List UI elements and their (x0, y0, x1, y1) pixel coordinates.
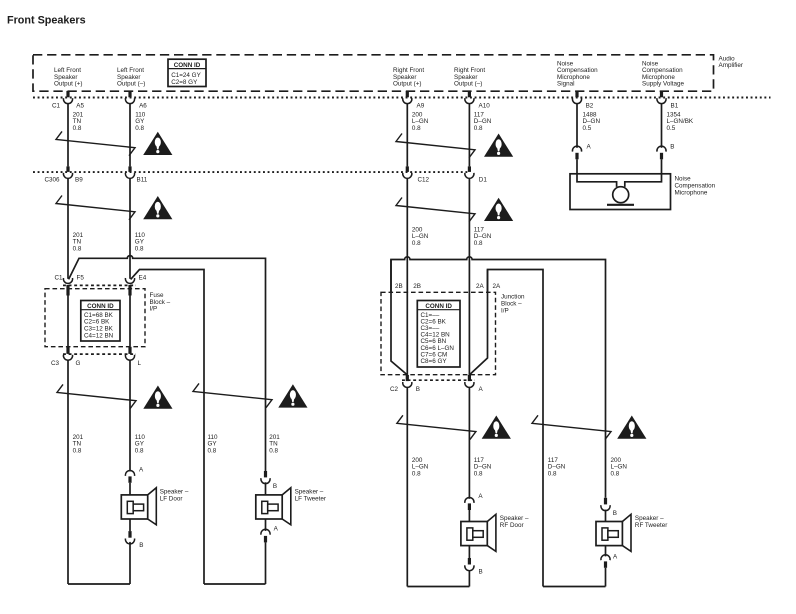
amp pin A9 terminal (406, 91, 409, 97)
warning triangle 1 (143, 132, 172, 155)
wire through LF door speaker (129, 495, 131, 519)
connector C306 pin B11 (128, 166, 131, 172)
svg-text:Front Speakers: Front Speakers (7, 14, 86, 26)
warning triangle 8 (617, 416, 646, 439)
warning triangle 7 (482, 416, 511, 439)
wire right col1 amp to C306 (406, 103, 408, 166)
wire bottom loop LF door (68, 583, 130, 585)
connector C2 dotted line (402, 379, 475, 381)
svg-text:Junction: Junction (501, 293, 525, 300)
wire bottom loop RF tweeter (543, 586, 606, 588)
svg-text:C4=12 BN: C4=12 BN (84, 332, 114, 339)
warning triangle 3 (143, 386, 172, 409)
wire LF tweeter B to speaker (265, 482, 267, 495)
connector RF door pin A (465, 497, 474, 502)
svg-text:C1: C1 (55, 275, 64, 282)
wire RF tweeter A to bottom (605, 568, 607, 587)
svg-text:RF Door: RF Door (500, 522, 524, 529)
svg-text:B1: B1 (671, 103, 679, 110)
connector LF tweeter pin A (261, 529, 270, 534)
wire col2 inside fuse block (129, 296, 131, 347)
svg-text:0.5: 0.5 (667, 125, 676, 132)
connector LF door pin A (125, 470, 134, 475)
svg-text:A6: A6 (139, 103, 147, 110)
connector LF door pin B (128, 531, 131, 538)
svg-text:0.8: 0.8 (611, 470, 620, 477)
svg-text:0.8: 0.8 (135, 125, 144, 132)
svg-text:2A: 2A (493, 283, 502, 290)
connector C306 pin C12 (406, 166, 409, 172)
wire RF tweeter B to speaker (605, 510, 607, 522)
connector LF tweeter pin B (264, 471, 267, 477)
svg-text:0.8: 0.8 (73, 245, 82, 252)
wire mic supply B1 down (661, 103, 663, 148)
svg-text:Speaker –: Speaker – (500, 515, 529, 522)
fuse block pin G (66, 347, 69, 354)
amp pin A5 terminal (66, 91, 69, 97)
speaker RF door icon (487, 514, 496, 551)
note marker crossing right col3-col4 (532, 415, 611, 439)
note marker crossing right col1-col2 (lower) (397, 415, 476, 439)
wire left col2 amp to C306 (129, 103, 131, 166)
wire right col2 C2 to speaker A (468, 387, 470, 498)
note marker crossing left col1-col2 (second) (56, 196, 135, 220)
fuse block pin F5 (63, 278, 72, 283)
wire branch 117 D-GN junction 2A to RF tweeter (488, 270, 544, 587)
svg-text:Output (–): Output (–) (117, 81, 145, 88)
junction block internal bus right (469, 270, 487, 375)
svg-text:0.8: 0.8 (474, 470, 483, 477)
wire mic lead right (625, 159, 662, 187)
svg-text:0.8: 0.8 (269, 447, 278, 454)
svg-text:B: B (670, 144, 674, 151)
audio amplifier U1 box (33, 55, 714, 91)
svg-text:C8=6 GY: C8=6 GY (421, 358, 448, 365)
wire right col1 C306 to junction block (406, 178, 408, 375)
svg-text:B: B (416, 386, 420, 393)
note marker crossing left col1-col2 (upper) (56, 131, 135, 155)
noise compensation microphone box (570, 174, 671, 210)
amp pin A10 terminal (468, 91, 471, 97)
svg-text:2A: 2A (476, 283, 485, 290)
svg-text:Output (–): Output (–) (454, 81, 482, 88)
note marker crossing right col1-col2 (second) (396, 198, 475, 222)
svg-text:C2: C2 (390, 386, 399, 393)
wire RF door speaker to pin B (468, 546, 470, 558)
speaker RF tweeter icon (622, 514, 631, 551)
amp pin B1 terminal (660, 91, 663, 97)
svg-text:C1: C1 (52, 103, 61, 110)
note marker crossing right col1-col2 (upper) (396, 134, 475, 158)
junction block pin A (468, 375, 471, 381)
fuse block I/P dashed outline (45, 289, 145, 347)
svg-text:F5: F5 (77, 275, 85, 282)
conn id table junction block (417, 301, 460, 368)
warning triangle 4 (278, 384, 307, 407)
svg-text:0.8: 0.8 (474, 125, 483, 132)
svg-text:Output (+): Output (+) (54, 81, 83, 88)
svg-text:CONN ID: CONN ID (425, 303, 452, 310)
svg-text:0.8: 0.8 (412, 125, 421, 132)
svg-text:B2: B2 (586, 103, 594, 110)
wire LF door A to speaker (129, 483, 131, 495)
wire LF door speaker to pin B (129, 519, 131, 531)
svg-text:0.8: 0.8 (73, 447, 82, 454)
wire RF door A to speaker (468, 510, 470, 522)
connector RF door pin B (468, 558, 471, 565)
svg-text:Output (+): Output (+) (393, 81, 422, 88)
note marker crossing left col3-col4 (193, 383, 272, 407)
svg-text:Supply Voltage: Supply Voltage (642, 81, 685, 88)
wire branch 110 GY from E4 to LF tweeter (131, 270, 204, 585)
junction block internal bus left (391, 260, 407, 375)
svg-text:0.8: 0.8 (135, 245, 144, 252)
svg-text:2B: 2B (395, 283, 403, 290)
svg-text:E4: E4 (139, 275, 147, 282)
svg-text:B9: B9 (75, 177, 83, 184)
wire right col1 C2 to bottom (406, 387, 408, 586)
wire left col1 C3 to bottom (67, 360, 69, 584)
connector C306 dotted line (33, 171, 470, 173)
svg-text:0.5: 0.5 (583, 125, 592, 132)
wire RF tweeter speaker to pin A (605, 546, 607, 557)
svg-text:C3: C3 (51, 360, 60, 367)
wire right col2 C306 to junction block (468, 178, 470, 375)
wire mic signal B2 down (576, 103, 578, 148)
speaker LF tweeter icon (282, 488, 291, 525)
wire RF door B to bottom (468, 571, 470, 587)
wire branch 200 L-GN junction 2B to RF tweeter (391, 257, 606, 498)
svg-text:B: B (479, 569, 483, 576)
wire left col1 C306 to F5 (67, 178, 69, 278)
conn id table amp C1/C2 (168, 59, 206, 86)
svg-text:D1: D1 (479, 177, 488, 184)
svg-text:Speaker –: Speaker – (635, 515, 664, 522)
connector C1 fuse dotted line (63, 284, 136, 286)
svg-text:B: B (613, 510, 617, 517)
connector RF tweeter pin B (604, 498, 607, 505)
svg-text:0.8: 0.8 (548, 470, 557, 477)
svg-text:B: B (139, 542, 143, 549)
svg-text:A10: A10 (479, 103, 491, 110)
wire bottom loop LF tweeter (204, 583, 266, 585)
svg-text:Block –: Block – (501, 300, 522, 307)
connector C1 amp dotted line (33, 97, 771, 99)
svg-text:G: G (76, 360, 81, 367)
warning triangle 5 (484, 134, 513, 157)
svg-text:B: B (273, 483, 277, 490)
svg-text:L: L (138, 360, 142, 367)
svg-text:I/P: I/P (150, 306, 158, 313)
warning triangle 2 (143, 196, 172, 219)
svg-text:Amplifier: Amplifier (719, 62, 744, 69)
svg-text:CONN ID: CONN ID (87, 303, 114, 310)
wire col1 inside fuse block (67, 296, 69, 347)
junction block I/P dashed outline (381, 292, 496, 374)
svg-text:B11: B11 (137, 177, 148, 184)
svg-text:C2=8 GY: C2=8 GY (171, 79, 198, 86)
wire through LF tweeter speaker (265, 495, 267, 519)
svg-text:0.8: 0.8 (135, 447, 144, 454)
wire left col2 C306 to E4 (129, 178, 131, 278)
svg-text:0.8: 0.8 (474, 240, 483, 247)
svg-text:I/P: I/P (501, 307, 509, 314)
warning triangle 6 (484, 198, 513, 221)
svg-text:Noise: Noise (675, 176, 692, 183)
svg-text:C12: C12 (418, 177, 430, 184)
microphone element symbol (613, 187, 629, 203)
connector mic pin A (572, 146, 581, 151)
connector C3 dotted line (63, 353, 136, 355)
conn id table fuse block (81, 301, 120, 342)
amp pin B2 terminal (575, 91, 578, 97)
svg-text:Microphone: Microphone (675, 190, 708, 197)
svg-text:2B: 2B (413, 283, 421, 290)
speaker LF door icon (148, 488, 157, 525)
svg-text:A5: A5 (76, 103, 84, 110)
amp pin A6 terminal (128, 91, 131, 97)
svg-text:LF Tweeter: LF Tweeter (295, 496, 326, 503)
svg-text:0.8: 0.8 (412, 470, 421, 477)
connector C306 pin D1 (468, 166, 471, 172)
svg-text:0.8: 0.8 (73, 125, 82, 132)
connector mic pin B (657, 146, 666, 151)
fuse block pin E4 (125, 278, 134, 283)
svg-text:Speaker –: Speaker – (160, 489, 189, 496)
wire right col2 amp to C306 (468, 103, 470, 166)
svg-text:0.8: 0.8 (208, 447, 217, 454)
wire through RF door speaker (468, 522, 470, 546)
wire mic lead left (577, 159, 617, 187)
wire through RF tweeter speaker (605, 522, 607, 546)
wire left col2 C3 to speaker A (129, 360, 131, 471)
wire bottom loop RF door (407, 586, 469, 588)
wire LF tweeter A to bottom (265, 542, 267, 584)
note marker crossing left col1-col2 (lower) (57, 384, 136, 408)
svg-text:RF Tweeter: RF Tweeter (635, 522, 667, 529)
connector RF tweeter pin A (601, 555, 610, 560)
junction block pin B (406, 375, 409, 381)
wire left col1 amp to C306 (67, 103, 69, 166)
svg-text:0.8: 0.8 (412, 240, 421, 247)
svg-text:A9: A9 (417, 103, 425, 110)
svg-text:CONN ID: CONN ID (174, 62, 201, 69)
wire branch 201 TN from F5 to LF tweeter (69, 256, 266, 471)
wire LF door B to bottom (129, 542, 131, 584)
wire LF tweeter speaker to pin A (265, 519, 267, 531)
svg-text:LF Door: LF Door (160, 496, 183, 503)
connector C306 pin B9 (66, 166, 69, 172)
fuse block pin L (128, 347, 131, 354)
svg-text:Signal: Signal (557, 81, 575, 88)
svg-text:Speaker –: Speaker – (295, 489, 324, 496)
svg-text:Compensation: Compensation (675, 183, 716, 190)
svg-text:C306: C306 (45, 177, 61, 184)
